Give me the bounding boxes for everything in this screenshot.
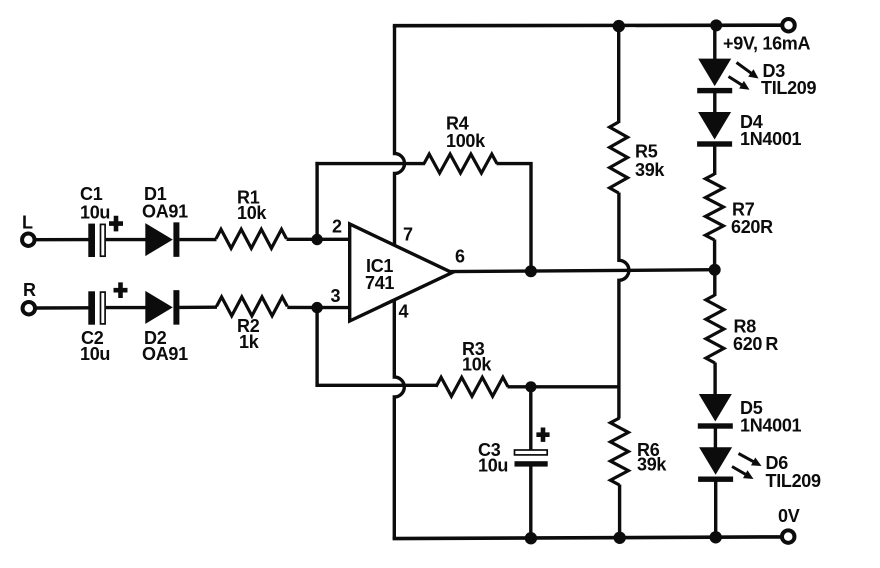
label C3 value (478, 440, 508, 476)
svg-text:6: 6 (455, 247, 465, 267)
svg-text:2: 2 (332, 217, 342, 237)
top rail +9V (393, 23, 782, 27)
svg-text:1N4001: 1N4001 (740, 416, 802, 436)
input terminal R (23, 302, 36, 315)
node bottom rail C3 (525, 532, 537, 544)
wire feedback top row (315, 162, 425, 165)
wire R2 to node 3 (287, 306, 351, 310)
resistor R7 (705, 174, 723, 240)
svg-text:10k: 10k (237, 203, 267, 223)
wire D4 to R7 (713, 144, 716, 175)
wire pin 4 to bottom rail (394, 300, 404, 539)
svg-text:741: 741 (365, 273, 394, 293)
svg-text:TIL209: TIL209 (766, 471, 822, 491)
wire R6 to bottom rail (618, 485, 621, 539)
svg-text:TIL209: TIL209 (761, 78, 817, 98)
svg-text:OA91: OA91 (142, 202, 188, 222)
wire D5 to D6 (714, 427, 717, 449)
wire top rail to R5 (617, 26, 620, 123)
resistor R2 (217, 297, 288, 316)
svg-text:4: 4 (399, 302, 409, 322)
resistor R8 (706, 295, 724, 363)
label D1 value (142, 184, 188, 222)
svg-text:L: L (22, 213, 33, 233)
wire C3 top (529, 388, 532, 451)
wire R to C2 (36, 306, 90, 310)
label D6 value (766, 453, 822, 491)
resistor R3 (436, 377, 508, 396)
svg-text:3: 3 (331, 286, 341, 306)
node pin 2 junction (311, 234, 322, 245)
wire node 2 up (315, 162, 318, 241)
svg-text:10u: 10u (80, 203, 110, 223)
node output feedback junction (525, 265, 537, 277)
svg-text:10k: 10k (462, 355, 492, 375)
svg-text:D6: D6 (766, 453, 789, 473)
op-amp IC1 (350, 224, 452, 321)
label R6 value (637, 440, 667, 475)
capacitor C3 (515, 428, 550, 467)
bottom rail 0V (393, 537, 781, 539)
LED D3 (697, 59, 732, 94)
svg-text:0V: 0V (778, 506, 800, 526)
svg-text:C1: C1 (80, 184, 103, 204)
label C2 value (80, 328, 110, 364)
wire node 3 down to R3 row (317, 306, 437, 385)
wire R8 to D5 (713, 363, 716, 396)
label R5 value (635, 142, 665, 181)
svg-text:39k: 39k (637, 455, 667, 475)
resistor R6 (610, 418, 628, 485)
LED D6 arrows (732, 454, 762, 480)
node top rail R5 (613, 20, 625, 32)
terminal 0V (782, 530, 795, 543)
wire C2 to D2 (106, 306, 146, 309)
label R1 value (237, 188, 267, 224)
wire R7 to output node (713, 240, 716, 271)
wire output node to R8 (713, 270, 716, 296)
label R4 value (446, 114, 486, 152)
wire op-amp output (449, 270, 715, 272)
svg-text:OA91: OA91 (142, 344, 188, 364)
diode D2 (145, 290, 179, 325)
svg-text:10u: 10u (478, 456, 508, 476)
wire R4 to output node (497, 164, 532, 271)
diode D1 (145, 222, 179, 257)
svg-text:7: 7 (403, 225, 413, 245)
wire D3 to D4 (713, 93, 716, 114)
svg-text:620R: 620R (731, 217, 773, 237)
wire C3 bottom (529, 467, 532, 540)
svg-text:+9V, 16mA: +9V, 16mA (723, 34, 811, 54)
LED D3 arrows (729, 63, 759, 90)
wire R5 to R6 with hop (619, 193, 629, 419)
wire R1 to node 2 (287, 238, 352, 241)
label R2 value (237, 316, 260, 352)
node R3 C3 junction (525, 381, 536, 392)
label R3 value (462, 339, 492, 375)
node pin 3 junction (311, 302, 322, 313)
label R8 value (733, 317, 778, 355)
resistor R4 (424, 154, 497, 173)
label R7 value (731, 200, 773, 238)
wire D6 to bottom rail (714, 481, 717, 538)
input terminal L (22, 233, 35, 246)
node output LED junction (709, 264, 721, 276)
label D4 value (740, 112, 802, 149)
diode D5 (698, 394, 733, 429)
node bottom rail R6 (614, 532, 626, 544)
terminal +9V (782, 19, 795, 32)
wire pin 7 to top rail (395, 26, 405, 247)
label D5 value (740, 398, 802, 436)
svg-text:1N4001: 1N4001 (740, 129, 802, 149)
wire C1 to D1 (106, 238, 146, 241)
LED D6 (698, 447, 733, 482)
svg-text:R: R (23, 280, 36, 300)
capacitor C1 (88, 216, 123, 257)
label D2 value (142, 328, 188, 364)
wire top rail to D3 (713, 26, 716, 61)
label D3 value (761, 61, 817, 98)
node top rail LED (710, 19, 722, 31)
label IC1 741 (365, 256, 394, 293)
capacitor C2 (88, 282, 127, 324)
label C1 value (80, 184, 110, 223)
resistor R1 (216, 229, 287, 248)
resistor R5 (610, 122, 628, 193)
svg-text:1k: 1k (239, 332, 260, 352)
svg-text:620 R: 620 R (733, 334, 778, 354)
svg-text:10u: 10u (80, 344, 110, 364)
diode D4 (697, 112, 732, 147)
wire R3 to R6 column (508, 385, 620, 388)
node bottom rail LED (710, 531, 722, 543)
svg-text:100k: 100k (446, 131, 486, 151)
wire L to C1 (36, 238, 90, 241)
wire D2 to R2 (179, 306, 217, 310)
svg-text:R5: R5 (635, 142, 658, 162)
wire D1 to R1 (179, 238, 216, 241)
svg-text:39k: 39k (635, 160, 665, 180)
